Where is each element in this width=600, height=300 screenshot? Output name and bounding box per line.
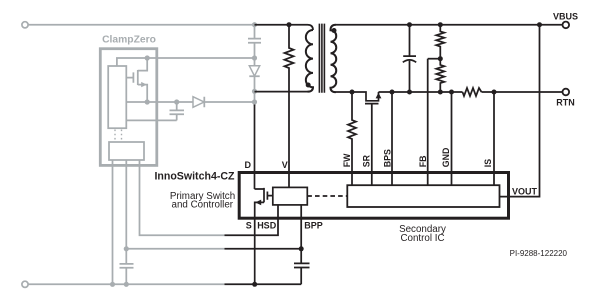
wire CZ pin2 <box>125 160 127 263</box>
CZ controller block <box>108 66 126 128</box>
transformer T1 primary winding <box>306 30 313 92</box>
wire CZ source to controller <box>126 101 147 103</box>
transistor CZ clamp FET Q1 <box>126 58 147 102</box>
ClampZero box <box>100 49 157 166</box>
wire BPP <box>300 205 302 249</box>
svg-text:S: S <box>246 221 252 231</box>
node IS <box>492 90 497 95</box>
node FB divider bottom <box>438 90 443 95</box>
wire CZ pin1 to ground <box>112 160 114 284</box>
svg-text:InnoSwitch4-CZ: InnoSwitch4-CZ <box>154 171 235 183</box>
wire secondary return rail <box>379 91 463 93</box>
node pin1 ground <box>110 282 115 287</box>
node clamp return <box>252 99 257 104</box>
wire FB tap <box>428 58 441 60</box>
svg-text:BPP: BPP <box>304 221 323 231</box>
IC box InnoSwitch4-CZ <box>239 173 508 219</box>
driver block <box>273 187 308 205</box>
svg-text:HSD: HSD <box>257 221 277 231</box>
svg-text:SR: SR <box>362 154 372 167</box>
resistor FB lower R4 <box>436 59 444 92</box>
svg-text:FB: FB <box>418 155 428 167</box>
terminal input positive <box>22 22 28 28</box>
terminal input negative <box>22 281 28 287</box>
wire drain to IC <box>254 105 256 190</box>
node CZ drain <box>145 55 150 60</box>
node CZ pin2 bpp <box>124 246 129 251</box>
capacitor output C5 <box>403 25 416 92</box>
wire CZ source right <box>147 101 193 103</box>
node FB tap <box>438 56 443 61</box>
phase dot primary <box>306 83 311 88</box>
transformer T1 secondary winding <box>331 25 337 92</box>
transistor primary MOSFET Q2 <box>255 188 273 284</box>
wire FB pin <box>427 59 429 186</box>
node output cap top <box>407 22 412 27</box>
node clamp cap top <box>252 22 257 27</box>
transistor SR FET Q3 <box>336 92 379 104</box>
svg-text:V: V <box>282 160 288 170</box>
terminal RTN <box>563 89 570 96</box>
svg-text:ClampZero: ClampZero <box>102 35 156 46</box>
svg-text:VBUS: VBUS <box>553 11 578 21</box>
node primary drain <box>252 89 257 94</box>
wire SR gate <box>371 104 373 186</box>
dashed link primary to secondary <box>307 195 347 197</box>
node V tap <box>287 22 292 27</box>
wire input top rail <box>28 24 254 26</box>
svg-text:GND: GND <box>441 148 451 168</box>
svg-text:RTN: RTN <box>556 97 575 107</box>
wire VBUS rail <box>336 24 562 26</box>
wire drain gray segment <box>254 91 256 106</box>
node BPP <box>299 246 304 251</box>
wire CZ drain to clamp node <box>147 57 254 59</box>
svg-text:and Controller: and Controller <box>172 200 234 211</box>
wire CZ cap return <box>126 119 176 121</box>
pin dotted links CZ <box>115 130 122 143</box>
capacitor clamp C1 <box>248 25 261 58</box>
wire GND pin <box>451 92 453 185</box>
wire rail to RTN <box>482 91 563 93</box>
wire CZ pin3 hsd gray <box>140 160 225 235</box>
svg-text:VOUT: VOUT <box>512 186 538 196</box>
capacitor CZ C2 <box>170 102 185 120</box>
node S ground <box>252 282 257 287</box>
resistor V line R1 <box>285 25 294 188</box>
diode clamp D1 <box>249 58 259 91</box>
resistor FW R2 <box>348 92 356 185</box>
wire VOUT <box>500 25 540 197</box>
wire bpp gray <box>126 248 224 250</box>
wire BPS pin <box>391 92 393 185</box>
wire HSD <box>225 205 279 235</box>
CZ driver block <box>109 142 144 160</box>
node clamp mid <box>252 55 257 60</box>
svg-text:D: D <box>244 160 251 170</box>
transformer core <box>319 24 324 93</box>
node output cap bottom <box>407 90 412 95</box>
svg-text:PI-9288-122220: PI-9288-122220 <box>510 249 568 258</box>
svg-text:FW: FW <box>342 153 352 167</box>
node GND <box>449 90 454 95</box>
node BPS <box>390 90 395 95</box>
node CZ cap tap <box>174 99 179 104</box>
secondary controller box <box>347 185 499 207</box>
svg-text:BPS: BPS <box>383 149 393 167</box>
svg-text:Control IC: Control IC <box>400 233 444 244</box>
wire top rail to transformer <box>255 25 314 30</box>
phase dot secondary <box>332 28 337 33</box>
node VOUT top <box>537 22 542 27</box>
wire BPP link black <box>225 248 302 250</box>
wire primary bottom <box>255 91 308 93</box>
wire bottom rail black <box>225 283 302 285</box>
node FW <box>350 90 355 95</box>
terminal VBUS <box>563 22 570 29</box>
node pin2 ground <box>124 282 129 287</box>
resistor shunt IS R5 <box>463 88 482 96</box>
capacitor BPP C4 <box>294 249 310 284</box>
wire input bottom rail <box>28 283 224 285</box>
wire CZ drain top <box>117 58 147 66</box>
wire IS pin <box>493 92 495 185</box>
node CZ source <box>145 99 150 104</box>
node FB divider top <box>438 22 443 27</box>
diode CZ output D2 <box>204 97 254 108</box>
resistor FB upper R3 <box>436 25 444 59</box>
svg-text:IS: IS <box>483 159 493 167</box>
capacitor CZ bypass C3 <box>120 264 134 284</box>
